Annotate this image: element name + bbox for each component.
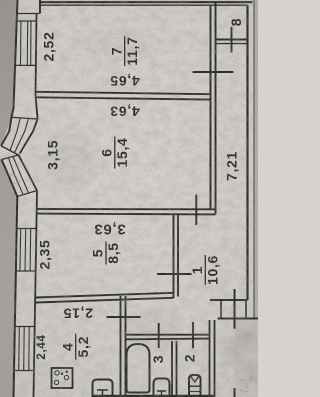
outside margin left xyxy=(0,0,18,397)
hall/room5 wall xyxy=(173,214,175,298)
entrance door jamb xyxy=(234,388,236,397)
bay window lower band glazing xyxy=(9,157,29,195)
corridor wall xyxy=(210,5,212,209)
window 2,52 glazing xyxy=(21,21,32,65)
wall room5/kitchen xyxy=(36,293,174,298)
label room 1 xyxy=(189,255,221,285)
window 2,44 glazing xyxy=(19,327,30,371)
door tick room 7 xyxy=(193,71,234,73)
label room 7 xyxy=(108,36,139,66)
wall toilet/hall xyxy=(210,320,215,397)
washbasin xyxy=(154,379,170,397)
bay window lower band outer xyxy=(2,160,18,197)
bay window lower band inner xyxy=(19,155,38,191)
top wall xyxy=(40,1,253,3)
wall room7/room6 xyxy=(36,92,210,94)
right wall outer xyxy=(253,0,255,319)
bay tip caps xyxy=(1,146,18,160)
label room 6 xyxy=(99,137,131,169)
toilet xyxy=(189,375,201,397)
label room 4 xyxy=(59,334,91,360)
faint pencil marks bottom right xyxy=(240,376,251,391)
closet box walls bottom-right xyxy=(210,299,248,301)
bath block top wall xyxy=(126,334,210,336)
door tick room 8 xyxy=(231,27,233,53)
bay window upper band glazing xyxy=(10,118,29,153)
left wall bottom outer xyxy=(14,197,18,397)
stove xyxy=(52,368,73,388)
door tick room 5 xyxy=(157,273,192,275)
bay window upper band cap xyxy=(12,117,38,119)
bathtub xyxy=(127,344,150,393)
right wall inner xyxy=(246,5,248,300)
bay lower band cap xyxy=(17,191,37,197)
wall bath/toilet xyxy=(172,341,177,397)
kitchen sink xyxy=(93,380,113,397)
label room 5 xyxy=(90,242,122,265)
wall room6/room5 xyxy=(37,208,216,210)
bottom wall edge xyxy=(93,395,215,397)
window 2,52 caps xyxy=(15,21,36,65)
door tick toilet xyxy=(192,322,194,348)
kitchen/hall wall xyxy=(120,296,122,397)
left wall top corner block xyxy=(17,13,40,15)
door tick bath xyxy=(158,323,160,348)
window 2,44 caps xyxy=(13,327,34,371)
door tick room 6 xyxy=(195,195,197,226)
door tick kitchen xyxy=(107,316,141,318)
bay window upper band outer xyxy=(1,117,11,145)
stairwell area bottom right xyxy=(235,319,259,397)
left wall top outer xyxy=(12,0,18,117)
faint pencil mark near bay xyxy=(10,175,20,184)
room 8 bottom wall xyxy=(216,39,247,41)
window 2,35 caps xyxy=(15,229,36,272)
window 2,35 glazing xyxy=(20,229,31,272)
left wall top inner xyxy=(36,14,38,120)
bay window upper band inner xyxy=(20,119,38,154)
closet right side xyxy=(245,300,247,319)
outside margin right xyxy=(254,0,259,319)
photo blotches xyxy=(44,27,247,366)
strip above top wall xyxy=(40,0,254,1)
left wall bottom inner xyxy=(34,191,38,397)
